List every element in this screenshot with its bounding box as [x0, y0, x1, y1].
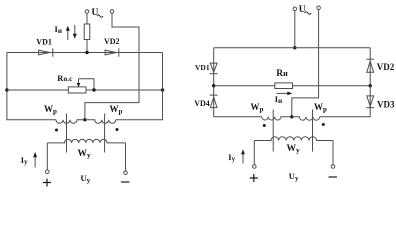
svg-text:U: U [299, 5, 306, 15]
svg-text:VD1: VD1 [195, 63, 210, 72]
terminal − (left circuit) [124, 171, 128, 175]
winding Wy (right circuit) [254, 137, 333, 141]
current arrow Iн down [74, 25, 76, 35]
core line left (right circuit) [272, 110, 274, 152]
diode VD3 (right circuit, pointing down) [367, 96, 374, 106]
left rail (left circuit) [7, 53, 56, 120]
left rail (right circuit) [214, 48, 262, 117]
terminal right of U~ (left circuit) [110, 10, 114, 14]
wire Wy left end down to + terminal [46, 143, 48, 170]
current arrow Iy up (left circuit) [34, 155, 36, 168]
wire from load resistor down to bus [86, 40, 88, 53]
svg-text:Wp: Wp [44, 104, 57, 116]
terminal − (right circuit) [331, 165, 335, 169]
wire Wy left end down to + terminal (right circuit) [253, 141, 255, 165]
diode VD1 (right circuit, pointing down) [210, 63, 217, 72]
wire from right U~ terminal down-right-down to Wp centre tap [85, 13, 139, 120]
current arrow Iн (right circuit) [277, 92, 289, 94]
terminal + (right circuit) [253, 165, 257, 169]
node: bus junction (right circuit) [293, 46, 296, 49]
node: right rail / Rн line [369, 84, 372, 87]
right rail (right circuit) [320, 48, 371, 117]
node: left rail / Ro.c line [5, 88, 8, 91]
winding Wp left (left circuit) [56, 120, 85, 124]
current arrow Iy up (right circuit) [242, 152, 244, 164]
node: Wp centre tap (right circuit) [290, 115, 293, 118]
svg-text:Iу: Iу [228, 152, 235, 163]
svg-text:Wp: Wp [110, 104, 123, 116]
resistor Ro.c [68, 87, 86, 93]
wire from left U~ terminal down to load resistor [86, 13, 88, 24]
diode VD1 (left circuit) [39, 50, 50, 55]
top bus (right circuit) [214, 47, 371, 49]
node: bus junction with load branch [85, 51, 88, 54]
node: left rail / Rн line [212, 84, 215, 87]
wire Wy right end down to − terminal [125, 143, 127, 171]
feedback line with Ro.c [7, 89, 163, 91]
svg-text:Iу: Iу [21, 155, 28, 166]
current arrow Iн up [67, 28, 69, 40]
winding Wp left (right circuit) [262, 117, 292, 120]
bridge diagonal line with Rн [214, 85, 371, 87]
label − (left circuit) [121, 181, 130, 183]
core line right (right circuit) [312, 110, 314, 152]
node: Wp centre tap [83, 118, 86, 121]
svg-text:Wp: Wp [251, 102, 264, 114]
right rail (left circuit) [116, 53, 163, 120]
diode VD2 (right circuit, pointing up) [366, 58, 374, 60]
winding Wp right (left circuit) [85, 120, 116, 124]
svg-text:Wp: Wp [314, 102, 327, 114]
svg-text:VD1: VD1 [36, 37, 52, 46]
svg-text:Rо.с: Rо.с [57, 73, 73, 83]
core line left (left circuit) [66, 114, 68, 153]
svg-text:Wу: Wу [287, 144, 301, 155]
terminal left of U~ (right circuit) [293, 7, 297, 11]
svg-text:Iн: Iн [55, 24, 62, 35]
diode VD4 (right circuit, pointing up) [210, 94, 218, 96]
terminal left of U~ (left circuit) [85, 10, 89, 14]
core line right (left circuit) [104, 114, 106, 153]
terminal + (left circuit) [46, 170, 50, 174]
svg-text:VD4: VD4 [194, 99, 210, 108]
polarity dot left winding [55, 129, 58, 132]
wire Wy right end down to − terminal (right circuit) [332, 141, 334, 165]
top bus (left circuit) [7, 52, 163, 54]
winding Wp right (right circuit) [292, 117, 320, 120]
svg-text:Wу: Wу [78, 149, 92, 160]
svg-text:Rн: Rн [276, 69, 288, 79]
label + (right circuit) [250, 174, 258, 182]
polarity dot right winding (right circuit) [322, 123, 325, 126]
load resistor (Iн branch) [84, 24, 90, 40]
svg-text:VD2: VD2 [104, 37, 120, 46]
node: feedback line / right rail [161, 88, 164, 91]
svg-text:Uу: Uу [81, 173, 91, 185]
label − (right circuit) [329, 176, 338, 178]
wire from left U~ terminal to top bus [294, 11, 296, 48]
node: wiper tap on feedback line [92, 88, 95, 91]
svg-text:Iн: Iн [275, 94, 282, 105]
svg-text:VD2: VD2 [377, 62, 395, 72]
resistor Rн [275, 83, 293, 89]
winding Wy (left circuit) [47, 139, 125, 143]
wire from right U~ terminal down to Wp centre tap [292, 10, 319, 117]
svg-text:Uу: Uу [289, 171, 299, 183]
polarity dot left winding (right circuit) [263, 124, 266, 127]
rheostat wiper arrow of Ro.c [78, 79, 80, 85]
svg-text:VD3: VD3 [377, 100, 395, 110]
label + (left circuit) [43, 179, 51, 187]
polarity dot right winding [116, 128, 119, 131]
diode VD2 (left circuit) [105, 50, 116, 55]
terminal right of U~ (right circuit) [317, 6, 321, 10]
